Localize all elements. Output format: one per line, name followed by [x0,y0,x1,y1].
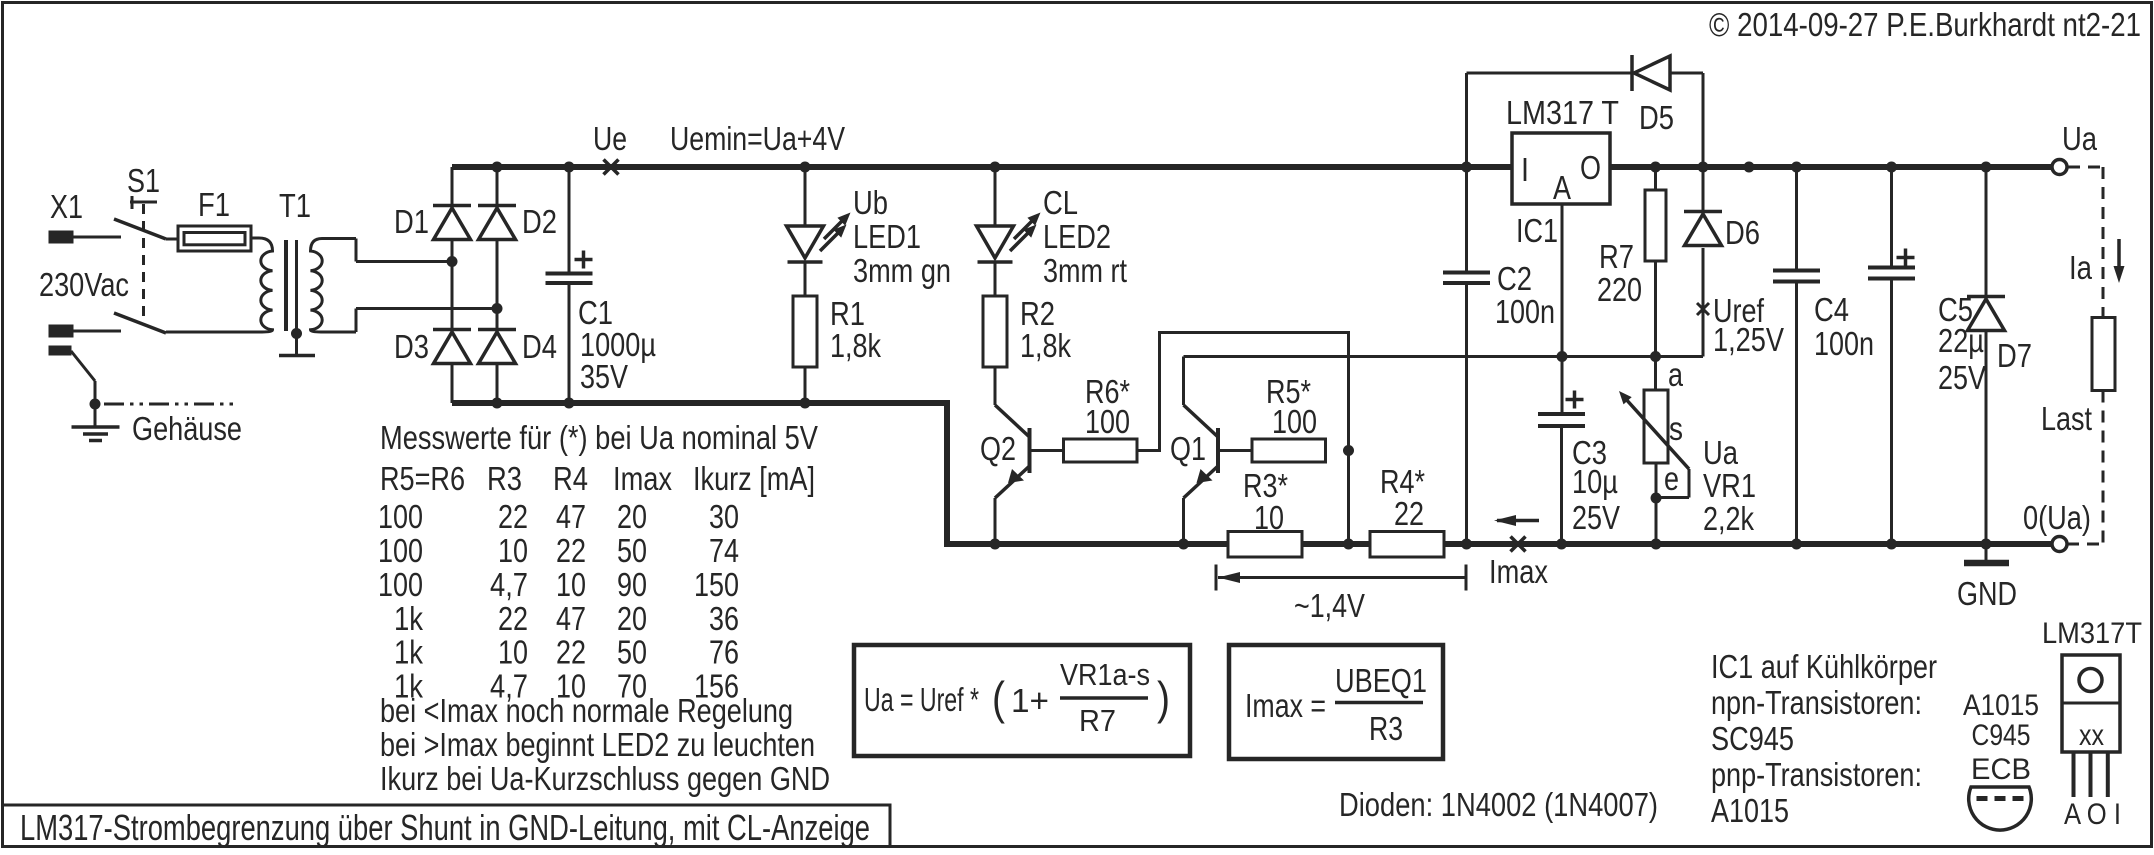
svg-text:0(Ua): 0(Ua) [2023,499,2091,536]
svg-text:LM317-Strombegrenzung über Shu: LM317-Strombegrenzung über Shunt in GND-… [20,807,870,848]
svg-text:Ua: Ua [1703,434,1739,471]
svg-text:100: 100 [1085,403,1130,440]
svg-text:D6: D6 [1725,214,1760,251]
svg-text:LM317 T: LM317 T [1506,94,1619,131]
svg-text:O: O [1580,149,1601,186]
svg-text:R7: R7 [1079,703,1116,738]
svg-text:Ia: Ia [2069,249,2093,286]
svg-text:S1: S1 [127,162,160,199]
svg-text:ECB: ECB [1971,753,2031,786]
svg-text:IC1: IC1 [1516,212,1558,249]
svg-text:Last: Last [2041,400,2092,437]
svg-text:A: A [1553,169,1571,206]
svg-text:LM317T: LM317T [2042,617,2142,650]
svg-text:D3: D3 [394,328,429,365]
svg-text:VR1a-s: VR1a-s [1060,657,1150,692]
svg-text:bei >Imax beginnt LED2 zu leuc: bei >Imax beginnt LED2 zu leuchten [380,726,815,763]
svg-text:10: 10 [498,634,528,671]
svg-text:Uemin=Ua+4V: Uemin=Ua+4V [670,120,845,157]
svg-text:1+: 1+ [1011,682,1049,719]
svg-text:A1015: A1015 [1711,792,1789,829]
svg-text:35V: 35V [580,358,628,395]
svg-text:90: 90 [617,566,647,603]
svg-text:pnp-Transistoren:: pnp-Transistoren: [1711,756,1922,793]
svg-text:100: 100 [1272,403,1317,440]
svg-text:22: 22 [556,634,586,671]
svg-text:D1: D1 [394,203,429,240]
svg-text:GND: GND [1957,575,2017,612]
svg-text:Ikurz [mA]: Ikurz [mA] [693,460,815,497]
svg-text:36: 36 [709,600,739,637]
svg-text:UBEQ1: UBEQ1 [1335,662,1427,699]
svg-text:25V: 25V [1572,499,1620,536]
svg-text:CL: CL [1043,184,1078,221]
svg-text:D2: D2 [522,203,557,240]
svg-text:C945: C945 [1972,719,2031,752]
svg-text:47: 47 [556,498,586,535]
svg-text:25V: 25V [1938,359,1986,396]
svg-text:4,7: 4,7 [490,566,528,603]
svg-text:I: I [1521,151,1529,188]
svg-text:LED1: LED1 [853,218,921,255]
svg-text:Q1: Q1 [1170,430,1206,467]
svg-text:): ) [1157,672,1170,724]
svg-text:20: 20 [617,498,647,535]
svg-text:22: 22 [1394,495,1424,532]
svg-text:76: 76 [709,634,739,671]
svg-text:e: e [1664,460,1679,497]
svg-text:C4: C4 [1814,291,1849,328]
svg-text:3mm rt: 3mm rt [1043,252,1127,289]
svg-text:R4: R4 [553,460,588,497]
svg-text:A1015: A1015 [1963,689,2039,722]
svg-text:50: 50 [617,532,647,569]
svg-text:100: 100 [378,498,423,535]
svg-text:10: 10 [498,532,528,569]
svg-text:D7: D7 [1997,337,2032,374]
svg-text:F1: F1 [198,186,230,223]
svg-text:D5: D5 [1639,99,1674,136]
svg-text:2,2k: 2,2k [1703,500,1754,537]
svg-text:50: 50 [617,634,647,671]
svg-text:Gehäuse: Gehäuse [132,410,242,447]
svg-text:© 2014-09-27 P.E.Burkhardt nt2: © 2014-09-27 P.E.Burkhardt nt2-21 [1709,6,2141,43]
svg-text:Messwerte für (*) bei Ua nomin: Messwerte für (*) bei Ua nominal 5V [380,419,818,456]
svg-text:(: ( [992,672,1006,724]
svg-text:10µ: 10µ [1572,463,1618,500]
svg-text:22: 22 [556,532,586,569]
svg-text:100: 100 [378,566,423,603]
svg-text:3mm gn: 3mm gn [853,252,951,289]
svg-text:30: 30 [709,498,739,535]
svg-text:a: a [1668,356,1684,393]
svg-text:Q2: Q2 [980,430,1016,467]
svg-text:A O I: A O I [2064,798,2121,831]
svg-text:xx: xx [2079,719,2104,752]
svg-text:22: 22 [498,498,528,535]
svg-text:230Vac: 230Vac [39,266,129,303]
svg-text:Ue: Ue [593,120,627,157]
svg-text:74: 74 [709,532,739,569]
svg-text:Ua = Uref *: Ua = Uref * [864,681,979,718]
svg-text:bei <Imax noch normale Regelun: bei <Imax noch normale Regelung [380,692,793,729]
svg-text:100n: 100n [1814,325,1874,362]
svg-text:R7: R7 [1599,238,1634,275]
svg-text:1k: 1k [394,634,423,671]
svg-text:Dioden: 1N4002 (1N4007): Dioden: 1N4002 (1N4007) [1339,786,1658,823]
svg-text:22: 22 [498,600,528,637]
svg-text:npn-Transistoren:: npn-Transistoren: [1711,684,1922,721]
svg-text:IC1 auf Kühlkörper: IC1 auf Kühlkörper [1711,648,1937,685]
svg-text:~1,4V: ~1,4V [1294,587,1365,624]
svg-text:T1: T1 [279,187,311,224]
svg-text:20: 20 [617,600,647,637]
svg-text:C2: C2 [1497,260,1532,297]
svg-text:10: 10 [556,566,586,603]
svg-text:Imax: Imax [1489,553,1548,590]
svg-text:10: 10 [1254,499,1284,536]
svg-text:R3: R3 [487,460,522,497]
svg-text:1k: 1k [394,600,423,637]
svg-text:R3: R3 [1369,710,1403,747]
svg-text:s: s [1669,410,1683,447]
svg-text:100: 100 [378,532,423,569]
svg-text:LED2: LED2 [1043,218,1111,255]
svg-text:1,8k: 1,8k [1020,327,1071,364]
svg-text:Ub: Ub [853,184,888,221]
svg-text:100n: 100n [1495,293,1555,330]
svg-text:1,8k: 1,8k [830,327,881,364]
svg-text:D4: D4 [522,328,557,365]
svg-text:1,25V: 1,25V [1713,321,1784,358]
svg-text:VR1: VR1 [1703,467,1756,504]
svg-text:Imax: Imax [613,460,672,497]
svg-text:X1: X1 [50,188,83,225]
svg-text:R5=R6: R5=R6 [380,460,465,497]
svg-text:Ua: Ua [2062,120,2098,157]
svg-text:150: 150 [694,566,739,603]
svg-text:Imax =: Imax = [1245,687,1326,724]
svg-text:220: 220 [1597,271,1642,308]
svg-text:Ikurz bei Ua-Kurzschluss gegen: Ikurz bei Ua-Kurzschluss gegen GND [380,760,830,797]
svg-text:SC945: SC945 [1711,720,1794,757]
svg-text:47: 47 [556,600,586,637]
